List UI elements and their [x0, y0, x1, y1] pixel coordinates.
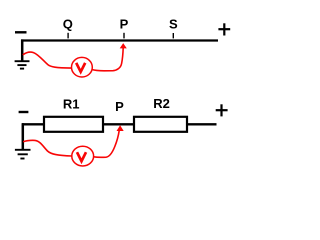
voltmeter V2 circle (bottom) — [72, 146, 94, 166]
ground symbol (bottom) — [15, 150, 31, 159]
resistor R2 body — [134, 117, 187, 132]
battery positive terminal symbol (top) — [218, 23, 230, 35]
wire: bottom left vertical drop to ground — [22, 123, 25, 149]
battery negative terminal symbol (bottom) — [19, 111, 29, 113]
red probe wire: ground stem to voltmeter V2 (bottom) — [23, 140, 72, 156]
voltmeter V1 letter V — [76, 63, 85, 72]
wire: R2 to positive terminal — [187, 123, 217, 125]
red probe wire: ground stem to voltmeter V1 (top) — [23, 52, 72, 68]
wire: top main horizontal conductor — [21, 39, 218, 41]
svg-text:P: P — [115, 99, 124, 114]
wire: bottom left stub from minus to R1 — [22, 123, 44, 125]
red arrowhead pointing up at node P (top) — [120, 43, 127, 48]
wire: top left vertical drop to ground — [21, 39, 24, 61]
svg-text:S: S — [169, 17, 178, 32]
red arrowhead pointing up at node P (bottom) — [117, 125, 124, 131]
red probe wire: voltmeter V2 to node P with arrow shaft (bottom) — [94, 131, 120, 158]
voltmeter V1 circle (top) — [72, 57, 93, 77]
resistor R1 body — [44, 117, 103, 132]
svg-text:R2: R2 — [153, 96, 170, 111]
battery positive terminal symbol (bottom) — [216, 104, 228, 116]
svg-text:P: P — [120, 17, 129, 32]
node P tick mark (top) — [123, 33, 125, 39]
battery negative terminal symbol (top) — [15, 31, 27, 33]
voltmeter V2 letter V — [77, 152, 86, 161]
svg-text:R1: R1 — [63, 97, 80, 112]
wire: between R1 and R2 (node P segment) — [103, 123, 134, 125]
red probe wire: voltmeter V1 to node P with arrow shaft (top) — [92, 48, 124, 71]
svg-text:Q: Q — [63, 17, 73, 32]
ground symbol (top) — [15, 61, 30, 68]
node S tick mark — [172, 33, 174, 38]
node Q tick mark — [67, 33, 69, 39]
